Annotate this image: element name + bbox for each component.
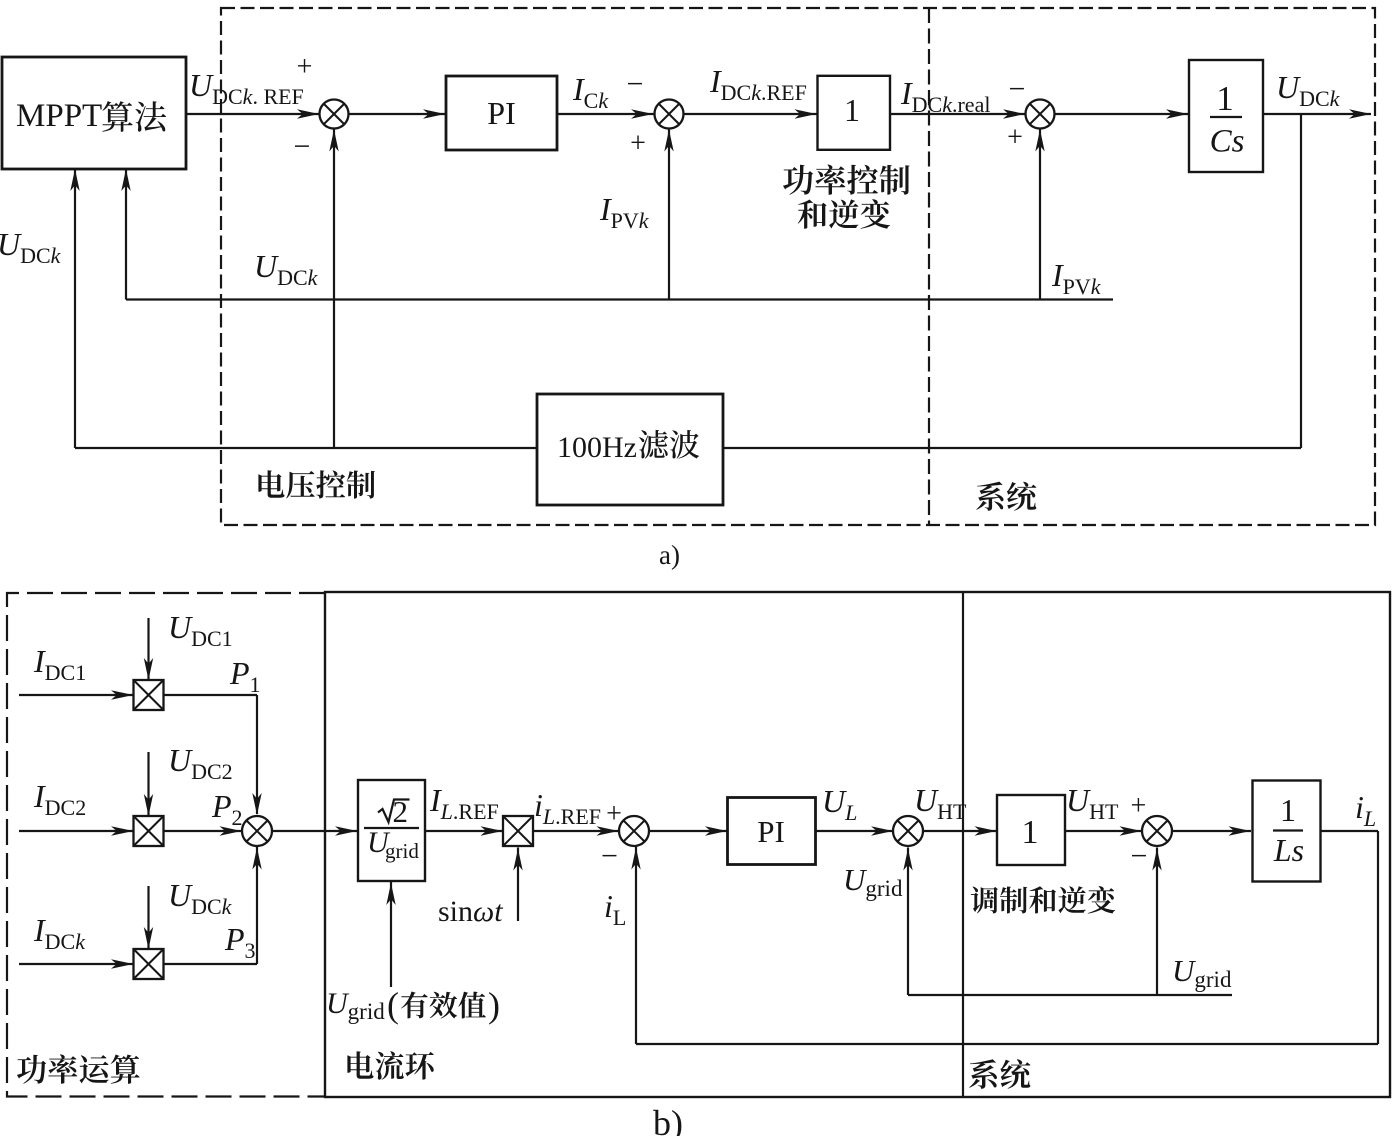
summing junction B2 current error	[619, 816, 649, 846]
svg-text:1: 1	[844, 92, 860, 128]
wire filtered U_DCk up into MPPT with arrow	[74, 169, 76, 448]
solid boundary of diagram b	[325, 592, 1390, 1097]
wire B3 to gain 1 with arrow	[923, 830, 997, 832]
svg-text:−: −	[294, 130, 311, 163]
multiplier junction B3 by U_grid	[893, 816, 923, 846]
block MPPT算法	[2, 57, 186, 169]
wire U_grid source line	[908, 994, 1232, 996]
svg-text:Ls: Ls	[1273, 832, 1304, 868]
svg-text:+: +	[297, 52, 313, 83]
multiplier M4 times sin wt	[503, 816, 533, 846]
wire block1 to summing junction S3 with arrow	[890, 113, 1026, 115]
svg-text:1: 1	[1022, 814, 1039, 851]
wire measurement into MPPT with arrow	[125, 169, 127, 300]
wire feedback right segment to 100Hz filter	[723, 447, 1301, 449]
node branch of U_DCk feedback	[1300, 114, 1302, 448]
block 1/Ls grid inductor	[1253, 781, 1321, 882]
solid separator between 电流环 and 系统 regions	[962, 592, 964, 1097]
wire U_grid rms input with arrow	[390, 882, 392, 987]
dashed boundary of 功率运算 region	[7, 593, 325, 1097]
multiplier M1	[134, 680, 164, 710]
wire MPPT output to summing junction S1 with arrow	[186, 113, 319, 115]
wire i_L feedback across	[636, 1043, 1378, 1045]
summing junction S3	[1026, 100, 1055, 129]
wire I_DC1 input with arrow	[19, 694, 134, 696]
svg-text:+: +	[1131, 791, 1147, 822]
svg-text:grid: grid	[385, 839, 419, 863]
dashed boundary of diagram a	[221, 8, 1375, 525]
svg-text:−: −	[627, 67, 644, 100]
svg-text:MPPT: MPPT	[16, 98, 102, 134]
block 100Hz滤波	[537, 394, 723, 505]
svg-text:+: +	[1007, 122, 1023, 153]
wire i_L feedback down	[1377, 831, 1379, 1044]
svg-text:−: −	[1009, 72, 1026, 105]
wire U_DC1 input with arrow	[147, 618, 149, 679]
svg-text:): )	[488, 985, 500, 1025]
wire S1 to PI block with arrow	[349, 113, 447, 115]
wire S3 to integrator 1/Cs with arrow	[1055, 113, 1190, 115]
wire S1 minus input from 100Hz line with arrow	[333, 129, 335, 449]
wire M4 to summing junction B2 with arrow	[533, 830, 619, 832]
svg-text:sinωt: sinωt	[438, 895, 503, 928]
svg-text:−: −	[1131, 839, 1148, 872]
wire U_grid into B4 with arrow	[1156, 848, 1158, 996]
svg-text:PI: PI	[757, 814, 785, 849]
wire B1 to sqrt2/Ugrid block with arrow	[273, 830, 359, 832]
svg-text:PI: PI	[487, 95, 515, 131]
wire to multiplier M4 with arrow	[425, 830, 503, 832]
svg-text:b): b)	[653, 1103, 683, 1136]
wire i_L feedback up into B2 with arrow	[635, 847, 637, 1045]
svg-text:(: (	[387, 985, 399, 1025]
label 功率控制	[783, 165, 910, 195]
multiplier M2	[134, 816, 164, 846]
wire I_PVk measurement line	[126, 298, 1113, 300]
svg-text:2: 2	[393, 794, 409, 829]
label 调制和逆变	[971, 886, 1115, 914]
svg-text:+: +	[630, 128, 646, 159]
label 功率运算 region	[17, 1054, 140, 1083]
wire U_DC2 input with arrow	[147, 752, 149, 815]
summing junction S2	[655, 100, 684, 129]
svg-text:1: 1	[1216, 79, 1234, 118]
block PI current regulator	[728, 798, 816, 865]
block 1/Cs DC-link capacitor	[1189, 60, 1263, 172]
label 电压控制 region	[258, 470, 375, 498]
dashed separator between 电压控制 and 系统 regions	[928, 8, 930, 525]
label 和逆变	[798, 199, 890, 228]
wire U_DCk input with arrow	[147, 886, 149, 948]
wire PI to multiplier B3 with arrow	[816, 830, 894, 832]
wire P2 to summing junction B1 with arrow	[164, 830, 242, 832]
wire S2 to gain block 1 with arrow	[684, 113, 818, 115]
wire 100Hz filter output left segment	[75, 447, 537, 449]
multiplier M3	[134, 949, 164, 979]
svg-text:a): a)	[659, 540, 680, 570]
wire I_DCk input with arrow	[19, 963, 134, 965]
summing junction S1	[320, 100, 349, 129]
label 系统 region of diagram b	[969, 1059, 1030, 1089]
summing junction B4 grid voltage subtraction	[1142, 816, 1172, 846]
svg-text:Cs: Cs	[1210, 124, 1245, 160]
output wire U_DCk with arrow to boundary	[1263, 113, 1371, 115]
wire PI to summing junction S2 with arrow	[557, 113, 654, 115]
wire P1 to summing junction B1 with arrow	[164, 694, 258, 696]
wire I_DC2 input with arrow	[19, 830, 134, 832]
wire I_PVk up into S2 with arrow	[668, 129, 670, 300]
wire sin wt input with arrow	[517, 848, 519, 922]
wire P3 to summing junction B1 with arrow	[164, 963, 258, 965]
svg-text:−: −	[601, 839, 618, 872]
label 系统 region of diagram a	[976, 482, 1036, 511]
wire I_PVk up into S3 with arrow	[1039, 129, 1041, 300]
wire U_grid into B3 with arrow	[907, 848, 909, 996]
wire B4 to 1/Ls with arrow	[1172, 830, 1251, 832]
svg-text:100Hz: 100Hz	[557, 431, 637, 464]
block sqrt2 over U_grid	[358, 780, 425, 881]
wire block1 to summing junction B4 with arrow	[1065, 830, 1142, 832]
label 电流环 region	[347, 1051, 433, 1080]
wire B2 to PI with arrow	[650, 830, 728, 832]
output wire i_L	[1321, 830, 1379, 832]
summing junction B1 total power	[242, 816, 272, 846]
block 1 调制和逆变	[997, 795, 1065, 865]
svg-text:1: 1	[1280, 792, 1296, 828]
block PI voltage regulator	[446, 76, 557, 150]
block 1 功率控制和逆变	[818, 76, 891, 150]
